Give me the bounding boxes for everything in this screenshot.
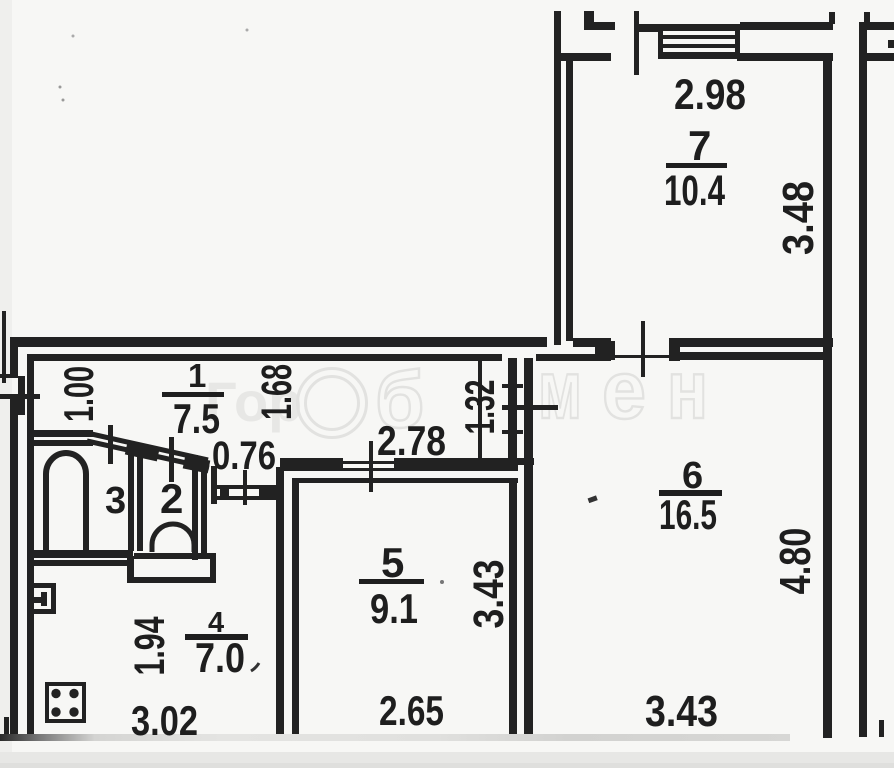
svg-text:9.1: 9.1: [370, 585, 418, 632]
room4-5 wall left line: [276, 467, 284, 736]
niche wall left line: [508, 358, 517, 465]
bathroom top wall line 1: [33, 430, 93, 437]
duct right: [210, 553, 216, 583]
tick on left wall A: [0, 374, 15, 378]
kitchen door wall line 2: [217, 496, 276, 500]
svg-text:2: 2: [160, 475, 183, 522]
label room 4 fraction line: [185, 634, 248, 640]
bathroom bottom wall line 1: [28, 550, 133, 558]
niche wall cap: [508, 458, 534, 465]
room 7 top wall outer right: [740, 22, 833, 30]
room 7 left wall inner: [566, 60, 573, 341]
left outer wall lower segment: [10, 399, 18, 735]
bathroom bottom wall line 2: [28, 560, 127, 566]
svg-text:3.43: 3.43: [645, 687, 718, 736]
room 7 top wall jamb vertical: [584, 11, 594, 30]
stove burner 4: [69, 707, 78, 716]
room 5 top wall left: [280, 458, 343, 471]
svg-text:2.98: 2.98: [674, 71, 746, 119]
svg-text:2.65: 2.65: [379, 687, 444, 734]
tick on left wall B: [0, 394, 40, 399]
room 7 door threshold: [611, 355, 672, 358]
svg-text:7: 7: [688, 122, 711, 169]
window right: [735, 24, 740, 59]
duct top: [134, 553, 210, 559]
towel fixture top: [33, 583, 56, 588]
room4-5 wall right line: [292, 478, 299, 736]
label room 7 fraction line: [666, 163, 727, 168]
room 7 top wall segment: [638, 24, 658, 32]
right wall outer: [859, 22, 867, 737]
room 7 top door tick: [634, 11, 639, 75]
left outer wall upper segment: [10, 343, 18, 378]
svg-text:1: 1: [188, 357, 206, 394]
towel fixture mark vertical: [41, 592, 47, 606]
room 7 door jamb left: [595, 341, 615, 360]
label room 1 fraction line: [162, 392, 224, 397]
svg-text:16.5: 16.5: [659, 491, 717, 538]
room 5 door threshold 2: [343, 468, 394, 471]
room 5 door threshold 1: [343, 461, 394, 464]
bottom photo strip: [0, 752, 894, 768]
svg-text:1.68: 1.68: [252, 364, 300, 420]
room 7 door jamb right: [669, 338, 680, 361]
faint dot 1: [72, 35, 75, 38]
kitchen door jamb right: [259, 485, 276, 500]
long top wall lower line left: [27, 354, 502, 361]
room 2 right wall line 2: [201, 458, 207, 556]
svg-text:5: 5: [381, 539, 404, 586]
stove burner 2: [69, 689, 78, 698]
right wall inner: [823, 59, 832, 738]
long top wall upper line mid: [573, 338, 611, 347]
tick above top-left corner: [2, 311, 6, 383]
angled wall thick patch A: [126, 449, 158, 456]
kitchen door wall line 1: [217, 485, 276, 489]
angled corridor wall upper line: [87, 433, 208, 460]
room 5 top wall inner line: [293, 478, 518, 483]
bottom-left edge tick: [4, 717, 9, 736]
label room 5 fraction line: [359, 579, 424, 584]
svg-text:1.94: 1.94: [125, 616, 174, 675]
window inner line 1: [663, 35, 735, 39]
faint dot 3: [59, 86, 62, 89]
svg-text:4.80: 4.80: [771, 528, 820, 595]
svg-text:1.32: 1.32: [456, 380, 503, 435]
top-right corner tick 1: [829, 12, 835, 24]
room 7 door tick: [641, 321, 645, 377]
bottom right tick: [879, 720, 884, 737]
bathtub: [46, 453, 86, 551]
room 7 top wall jamb horizontal: [584, 22, 615, 30]
bathroom top wall line 2: [33, 440, 93, 446]
bath divider wall line 1: [128, 449, 134, 551]
svg-text:1.00: 1.00: [54, 366, 102, 422]
towel fixture bottom: [33, 609, 56, 614]
angled corridor wall lower line: [87, 441, 209, 468]
svg-text:10.4: 10.4: [664, 167, 725, 215]
room 5 top wall right: [394, 458, 518, 471]
long top wall upper line right: [672, 338, 833, 347]
room 2 right wall line 1: [192, 455, 198, 560]
kitchen door tick: [243, 470, 247, 505]
long top wall lower line mid: [536, 354, 611, 361]
svg-text:2.78: 2.78: [377, 417, 446, 464]
top wall inner far right: [864, 53, 894, 61]
label room 6 fraction line: [659, 490, 722, 496]
duct left: [127, 556, 134, 583]
kitchen comma speck: [251, 663, 259, 671]
faint dot 2: [246, 29, 249, 32]
svg-text:0.76: 0.76: [212, 434, 276, 478]
room5-6 wall left line: [509, 478, 517, 738]
niche tick 1: [502, 384, 523, 388]
angled wall thick patch B: [184, 462, 209, 467]
stove burner 3: [51, 707, 60, 716]
room 7 top wall inner right: [737, 53, 833, 61]
duct bottom: [127, 577, 216, 583]
entrance door leaf: [18, 376, 25, 415]
sink: [152, 524, 194, 552]
top-right corner tick 2: [864, 12, 870, 23]
top wall outer far right: [864, 22, 894, 30]
long top wall lower line right: [669, 352, 823, 360]
towel fixture right: [51, 583, 56, 614]
right edge dash: [888, 40, 894, 48]
niche tick 3: [502, 430, 523, 434]
window left: [658, 24, 663, 59]
room 7 left wall outer: [554, 11, 561, 345]
room 5 door tick: [369, 441, 373, 492]
corridor niche thin line: [478, 357, 482, 463]
stove border: [45, 682, 86, 723]
faint dot 4: [62, 99, 65, 102]
svg-text:3: 3: [105, 480, 126, 522]
room5 speck: [440, 580, 444, 584]
niche tick 2 long: [502, 405, 558, 410]
bath divider wall line 2: [137, 452, 143, 551]
watermark ГорОбмен: [205, 343, 708, 444]
svg-text:7.0: 7.0: [195, 634, 245, 681]
stove burner 1: [51, 689, 60, 698]
angled wall tick 1: [108, 425, 113, 464]
kitchen door jamb left: [220, 485, 229, 500]
long top wall upper line left: [10, 337, 547, 347]
room 7 top wall inner left: [557, 53, 611, 61]
left edge strip: [0, 0, 12, 768]
window bottom: [658, 52, 740, 59]
room 6 speck: [588, 495, 598, 503]
window inner line 2: [663, 44, 735, 48]
svg-text:3.43: 3.43: [465, 559, 513, 628]
left inner wall: [27, 358, 34, 735]
svg-text:3.02: 3.02: [131, 697, 198, 744]
window top: [658, 24, 740, 31]
faint bottom wall: [0, 734, 790, 741]
svg-text:3.48: 3.48: [773, 181, 822, 255]
towel fixture mark horizontal: [34, 597, 47, 603]
kitchen door left frame vertical: [211, 466, 217, 504]
room5-6 wall right line: [524, 358, 533, 738]
angled wall tick 2: [169, 437, 174, 482]
